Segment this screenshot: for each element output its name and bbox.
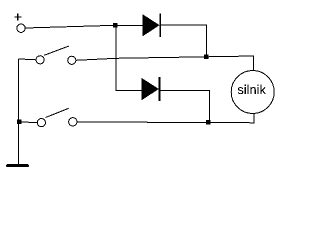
node junction D <box>17 119 22 124</box>
wire left rail corner to switch S1 left contact <box>18 58 36 61</box>
node junction A <box>113 23 118 28</box>
node junction B <box>204 55 208 59</box>
minus terminal bar <box>8 164 28 167</box>
wire diode D2 cathode to junction C <box>160 90 209 120</box>
diode D1 <box>142 13 160 37</box>
diode D2 <box>142 77 160 101</box>
wire switch S1 output through junction B to motor top <box>76 56 254 71</box>
terminal circle (+) <box>17 24 25 32</box>
wire junction D to switch S2 left contact <box>19 121 37 124</box>
switch S2 <box>37 108 77 126</box>
switch S1 <box>36 46 76 64</box>
wire diode D1 cathode to junction B <box>161 25 207 55</box>
motor M1 (silnik) <box>231 71 274 114</box>
wire junction A to diode D1 anode <box>115 24 143 26</box>
wire junction A down and to diode D2 anode <box>116 27 142 90</box>
node junction C <box>206 120 211 125</box>
wire from + terminal to junction A <box>25 25 115 28</box>
wire motor bottom to junction C to switch S2 <box>77 114 254 123</box>
plus terminal label + <box>14 14 21 21</box>
wire left rail vertical <box>17 59 19 166</box>
